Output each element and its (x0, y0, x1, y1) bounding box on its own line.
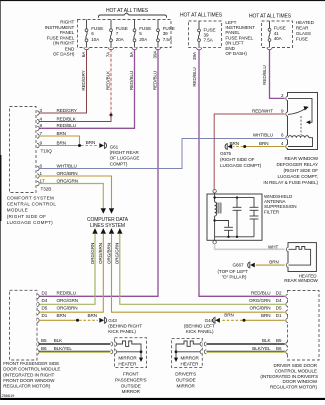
pin 17 (37, 181, 39, 185)
wire BRN dashed to ground G61 (81, 145, 98, 147)
svg-text:COMFORT SYSTEM: COMFORT SYSTEM (7, 196, 54, 201)
left door pin D4 (37, 302, 39, 306)
fuse 5 20A (132, 20, 151, 50)
svg-text:(RIGHT REAR: (RIGHT REAR (110, 150, 140, 155)
svg-text:G667: G667 (233, 263, 245, 268)
svg-text:CENTRAL CONTROL: CENTRAL CONTROL (7, 202, 57, 207)
svg-text:B5: B5 (41, 338, 47, 343)
pin 6 (37, 166, 39, 170)
svg-text:T32B: T32B (41, 186, 52, 191)
svg-text:BLK/YEL: BLK/YEL (54, 346, 73, 351)
svg-text:B6: B6 (41, 346, 47, 351)
ground G667 (217, 262, 254, 280)
svg-text:FRONT: FRONT (123, 371, 139, 376)
svg-text:DOOR CONTROL MODULE: DOOR CONTROL MODULE (3, 367, 60, 372)
svg-text:"D" PILLAR): "D" PILLAR) (222, 275, 247, 280)
wire ORG/GRN hub to left door D4 (39, 234, 96, 305)
ground G675 (220, 143, 262, 168)
svg-text:FUSE: FUSE (274, 25, 286, 30)
front passenger side door control module dashed box (10, 290, 38, 360)
svg-text:MIRROR: MIRROR (181, 356, 200, 361)
relay internal actuator dashed link (300, 116, 302, 135)
heated rear window pin WHT (286, 247, 288, 251)
junction dot BRN G43 (76, 319, 79, 322)
svg-text:BLK: BLK (262, 338, 271, 343)
svg-text:20A: 20A (116, 37, 125, 42)
capacitors C3 C4 in series (250, 207, 259, 237)
svg-text:RED/WHT: RED/WHT (252, 109, 273, 114)
driver's outside mirror dashed box (172, 338, 203, 367)
svg-text:RED/BLU: RED/BLU (251, 290, 271, 295)
node HOT AT ALL TIMES label 1 (99, 8, 167, 18)
text heated rear glass fuse (296, 20, 315, 42)
svg-text:REAR: REAR (296, 25, 309, 30)
text windshield antenna suppression filter (264, 194, 297, 215)
front passenger's outside mirror dashed box (115, 338, 147, 368)
svg-text:17: 17 (40, 178, 45, 183)
svg-text:OF LUGGAGE: OF LUGGAGE (110, 156, 140, 161)
svg-text:DEFOGGER RELAY: DEFOGGER RELAY (277, 162, 318, 167)
svg-text:BRN: BRN (86, 140, 96, 145)
left door pin D5 (37, 310, 39, 314)
svg-text:WHT/BLU: WHT/BLU (253, 132, 273, 137)
svg-text:HEATED: HEATED (296, 20, 315, 25)
left instrument panel fuse panel dashed box (189, 21, 222, 48)
windshield antenna suppression filter box (207, 194, 262, 240)
svg-text:(INTEGRATED IN RIGHT: (INTEGRATED IN RIGHT (3, 372, 54, 377)
svg-text:FILTER: FILTER (264, 209, 280, 214)
pin 7 (37, 134, 39, 138)
svg-text:ORG/GRN: ORG/GRN (90, 243, 95, 264)
svg-text:RED/GRY: RED/GRY (57, 108, 77, 113)
svg-text:39A: 39A (192, 51, 197, 60)
svg-text:(BEHIND RIGHT: (BEHIND RIGHT (108, 324, 142, 329)
svg-text:IN RELAY & FUSE PANEL): IN RELAY & FUSE PANEL) (263, 180, 318, 185)
wire RED/WHT relay pin9 to antenna filter (214, 114, 285, 189)
mirror connector terminals left (111, 342, 113, 346)
capacitor C1 (215, 221, 233, 237)
pin 4 (37, 119, 39, 123)
text left instrument panel fuse panel (225, 20, 255, 56)
svg-text:(INTEGRATED IN DRIVER'S: (INTEGRATED IN DRIVER'S (260, 374, 318, 379)
fuse 41 40A (267, 21, 286, 50)
svg-text:END: END (65, 46, 75, 51)
wire RED/BLU fuse5 to pin8 (39, 49, 135, 128)
svg-text:FRONT DOOR WINDOW: FRONT DOOR WINDOW (3, 378, 55, 383)
right door pin D2 (286, 294, 288, 298)
svg-text:HOT AT ALL TIMES: HOT AT ALL TIMES (249, 14, 292, 20)
left border thick segment (0, 155, 1, 221)
heated rear window box (288, 243, 316, 272)
filter bottom terminal (214, 237, 216, 241)
svg-text:REGULATOR MOTOR): REGULATOR MOTOR) (270, 385, 318, 390)
ground G61 (99, 142, 139, 166)
wire BRN relay pin4 to junction (245, 146, 285, 148)
svg-text:HEATER: HEATER (118, 362, 137, 367)
svg-text:COMPT): COMPT) (110, 161, 128, 166)
svg-text:G44: G44 (205, 318, 214, 323)
svg-text:BRN: BRN (259, 141, 269, 146)
svg-text:D5: D5 (42, 306, 48, 311)
pin 8 (37, 126, 39, 130)
wire BLK left door B5 to mirror heater (39, 343, 111, 345)
svg-text:RED/BLK: RED/BLK (106, 70, 111, 90)
wire BRN pin7 to junction (39, 136, 80, 146)
svg-text:D5: D5 (276, 306, 282, 311)
svg-text:B6: B6 (276, 346, 282, 351)
svg-text:D4: D4 (276, 298, 282, 303)
filter top terminal (213, 190, 216, 193)
left door pin D1 (37, 318, 39, 322)
wire RED/BLU 39A fuse39L to door module D2 (39, 49, 159, 296)
arrow down mirror heater left (139, 358, 143, 362)
svg-text:GLASS: GLASS (296, 31, 311, 36)
wire B6 inside right mirror (176, 351, 200, 353)
svg-text:T10Q: T10Q (41, 149, 53, 154)
svg-text:(IN RIGHT: (IN RIGHT (53, 41, 74, 46)
svg-text:G61: G61 (110, 144, 119, 149)
svg-text:(RIGHT SIDE OF: (RIGHT SIDE OF (283, 168, 318, 173)
heating element resistor (289, 247, 311, 266)
svg-text:39A: 39A (152, 50, 157, 59)
svg-text:LUGGAGE COMPT,: LUGGAGE COMPT, (277, 174, 318, 179)
wire WHT/BLU pin6 to relay pin6 (39, 139, 285, 169)
svg-text:OUTSIDE: OUTSIDE (176, 377, 196, 382)
arrow up hub 3 (109, 228, 114, 234)
wire ORG/BRN hub to left door D5 (39, 234, 104, 313)
svg-text:D1: D1 (276, 313, 282, 318)
relay internal fixed contact from pin2 (288, 98, 312, 122)
svg-text:(RIGHT SIDE OF: (RIGHT SIDE OF (220, 157, 255, 162)
text right instrument panel fuse panel (45, 20, 75, 57)
relay internal switch arm from pin9 (288, 109, 305, 115)
svg-text:BRN: BRN (224, 312, 234, 317)
svg-text:ORG/BRN: ORG/BRN (106, 243, 111, 264)
arrow up hub 4 (117, 228, 122, 234)
svg-text:BLK: BLK (54, 338, 63, 343)
arrow up hub 1 (92, 228, 97, 234)
junction dot mirror left (140, 350, 143, 353)
svg-text:D2: D2 (276, 290, 282, 295)
arrow down mirror heater right (174, 358, 178, 362)
svg-text:HOT AT ALL TIMES: HOT AT ALL TIMES (180, 13, 223, 19)
svg-text:ORG/BRN: ORG/BRN (98, 243, 103, 264)
junction dot BRN (78, 144, 81, 147)
svg-text:ORG/BRN: ORG/BRN (249, 306, 270, 311)
wire B6 inside left mirror (117, 351, 142, 353)
mirror connector terminals right (204, 342, 206, 346)
right instrument panel fuse panel dashed box (78, 20, 172, 48)
svg-text:ORG/GRN: ORG/GRN (115, 243, 120, 264)
svg-text:REAR WINDOW: REAR WINDOW (284, 278, 318, 283)
svg-text:RED/BLU: RED/BLU (129, 71, 134, 90)
text heated rear window (284, 274, 318, 283)
svg-text:KICK PANEL): KICK PANEL) (186, 329, 214, 334)
left black border line (0, 0, 2, 400)
comfort system central control module dashed box (10, 107, 37, 193)
svg-text:10A: 10A (91, 37, 100, 42)
capacitor C2 (233, 198, 242, 237)
relay pin 2 (286, 96, 288, 100)
svg-text:ORG/BRN: ORG/BRN (57, 171, 78, 176)
svg-text:RIGHT: RIGHT (60, 20, 74, 25)
mirror heater resistor left (117, 341, 142, 358)
svg-text:RED/BLU: RED/BLU (57, 290, 77, 295)
wire BRN left door D1 to junction (39, 319, 78, 321)
svg-text:39: 39 (163, 31, 168, 36)
svg-text:FUSE PANEL: FUSE PANEL (47, 35, 75, 40)
text comfort system central control module (7, 196, 57, 225)
svg-text:D4: D4 (42, 298, 48, 303)
svg-text:BRN: BRN (269, 260, 279, 265)
left door pin B6 (37, 350, 39, 354)
svg-text:FUSE: FUSE (296, 37, 308, 42)
svg-text:G675: G675 (220, 151, 232, 156)
right door pin D1 (286, 318, 288, 322)
wire BLK/YEL right door B6 to mirror heater (206, 350, 284, 352)
ground G43 (99, 317, 142, 334)
arrow down hub 1 (101, 208, 106, 214)
junction dot BRN G44 (243, 319, 246, 322)
svg-text:D2: D2 (42, 290, 48, 295)
wire WHT filter to heated rear window (215, 244, 285, 249)
left door pin D2 (37, 294, 39, 298)
wire BRN heated rear window to ground G667 (256, 264, 285, 266)
relay pin 4 (286, 144, 288, 148)
svg-text:END: END (225, 46, 235, 51)
inductor L1 with core (215, 202, 221, 216)
wire ORG/BRN pin1 to data hub (39, 176, 112, 208)
svg-text:LUGGAGE COMPT): LUGGAGE COMPT) (7, 220, 53, 225)
svg-text:MODULE: MODULE (7, 207, 28, 212)
relay pin 9 (286, 112, 288, 116)
svg-text:RED/GRY: RED/GRY (81, 70, 86, 90)
wire RED/BLU fuse41 to relay pin2 (270, 49, 285, 98)
svg-text:(BEHIND LEFT: (BEHIND LEFT (184, 324, 215, 329)
driver side door control module dashed box (288, 291, 320, 361)
wire ORG/BRN hub to right door D5 (112, 234, 285, 313)
svg-text:REGULATOR MOTOR): REGULATOR MOTOR) (3, 384, 51, 389)
svg-text:OF DASH): OF DASH) (225, 51, 247, 56)
arrow up hub 2 (101, 228, 106, 234)
wire BRN dashed to ground G43 (79, 319, 98, 321)
svg-text:RED/BLU: RED/BLU (152, 71, 157, 90)
wire RED/BLK to pin4 (39, 115, 112, 122)
relay pin 6 (286, 136, 288, 140)
node COMPUTER DATA LINES SYSTEM (87, 217, 129, 229)
wire RED/BLU 39A fuse39R to right door module D2 (199, 50, 285, 297)
wire RED/BLK fuse7 dashed (110, 49, 112, 114)
svg-text:KICK PANEL): KICK PANEL) (108, 329, 136, 334)
wire BRN dashed to ground G44 (221, 319, 243, 321)
svg-text:RED/BLU: RED/BLU (262, 65, 267, 84)
relay U1 rear window defogger relay box (288, 93, 318, 150)
svg-text:ORG/GRN: ORG/GRN (57, 178, 79, 183)
svg-text:BLK/YEL: BLK/YEL (252, 346, 271, 351)
junction dot RED/BLK (110, 114, 113, 117)
heated rear glass fuse dashed box (262, 21, 293, 48)
text driver's outside mirror (175, 371, 196, 388)
wire RED/GRY fuse6 to pin3 (39, 49, 87, 113)
right door pin D5 (286, 310, 288, 314)
text rear window defogger relay (263, 156, 318, 185)
junction dot mirror right (175, 350, 178, 353)
pin 9 (37, 143, 39, 147)
svg-text:MIRROR: MIRROR (118, 356, 137, 361)
svg-text:FRONT PASSENGER SIDE: FRONT PASSENGER SIDE (3, 361, 59, 366)
fuse 7 20A (108, 20, 127, 50)
wire ORG/GRN hub to right door D4 (120, 234, 285, 305)
svg-text:CONTROL MODULE: CONTROL MODULE (275, 368, 317, 373)
text front passenger's outside mirror (115, 371, 147, 394)
svg-text:REAR WINDOW: REAR WINDOW (284, 156, 318, 161)
filter internal top rail (215, 198, 254, 208)
svg-text:(RIGHT SIDE OF: (RIGHT SIDE OF (7, 214, 47, 219)
fuse 39 7.5A (right panel) (196, 21, 215, 50)
relay coil between pin6 and pin4 (288, 136, 309, 138)
wire BLK/YEL left door B6 to mirror heater (39, 350, 111, 352)
right door pin D4 (286, 302, 288, 306)
pin 1 (37, 174, 39, 178)
svg-text:PASSENGER'S: PASSENGER'S (115, 377, 147, 382)
top black border line (0, 0, 325, 1)
filter internal bottom rail (215, 236, 254, 238)
arrow down hub 2 (109, 208, 114, 214)
wire BRN pin9 to junction (39, 145, 80, 147)
svg-text:BRN: BRN (261, 313, 271, 318)
svg-text:BRN: BRN (57, 140, 67, 145)
svg-text:ORG/GRN: ORG/GRN (249, 298, 271, 303)
right door pin B5 (286, 342, 288, 346)
svg-text:40A: 40A (274, 36, 283, 41)
svg-text:7.5A: 7.5A (204, 37, 214, 42)
filter internal left drop (214, 216, 216, 237)
svg-text:RED/BLU: RED/BLU (57, 123, 77, 128)
pin 3 (37, 111, 39, 115)
svg-text:MIRROR: MIRROR (177, 383, 196, 388)
svg-text:WHT/BLU: WHT/BLU (57, 163, 77, 168)
svg-text:20A: 20A (139, 37, 148, 42)
svg-text:LUGGAGE COMPT): LUGGAGE COMPT) (220, 163, 262, 168)
wire BRN dashed to ground G675 (233, 146, 243, 148)
right door pin B6 (286, 350, 288, 354)
svg-text:B5: B5 (276, 338, 282, 343)
bottom black border bar (0, 398, 325, 400)
svg-text:RED/BLU: RED/BLU (192, 67, 197, 86)
svg-text:256619: 256619 (2, 393, 16, 398)
svg-text:MIRROR: MIRROR (122, 389, 141, 394)
svg-text:OF DASH): OF DASH) (53, 52, 75, 57)
svg-text:(TOP OF LEFT: (TOP OF LEFT (217, 269, 248, 274)
svg-text:G43: G43 (108, 318, 117, 323)
svg-text:ORG/GRN: ORG/GRN (57, 298, 79, 303)
svg-text:(IN LEFT: (IN LEFT (225, 41, 243, 46)
svg-text:HEATER: HEATER (181, 362, 200, 367)
svg-text:DRIVER'S: DRIVER'S (175, 371, 196, 376)
text driver side door control module (260, 363, 318, 390)
svg-text:BRN: BRN (57, 131, 67, 136)
fuse 6 10A (84, 20, 103, 50)
svg-text:41: 41 (274, 31, 279, 36)
svg-text:BRN: BRN (57, 313, 67, 318)
heated rear window pin BRN (286, 263, 288, 267)
junction dot BRN relay ground (243, 145, 246, 148)
svg-text:ORG/BRN: ORG/BRN (57, 306, 78, 311)
svg-text:BRN: BRN (88, 313, 98, 318)
wire BLK right door B5 to mirror heater (206, 343, 284, 345)
text front passenger side door control module (3, 361, 60, 389)
svg-text:7.5A: 7.5A (163, 37, 173, 42)
mirror heater resistor right (176, 341, 200, 358)
wire ORG/GRN pin17 to data hub (39, 184, 104, 209)
svg-text:WHT: WHT (268, 244, 279, 249)
svg-text:D1: D1 (42, 313, 48, 318)
svg-text:RED/BLK: RED/BLK (57, 116, 77, 121)
svg-text:OUTSIDE: OUTSIDE (121, 383, 141, 388)
svg-text:DOOR WINDOW: DOOR WINDOW (282, 379, 317, 384)
svg-text:LINES SYSTEM: LINES SYSTEM (90, 223, 125, 229)
fuse 39 7.5A (left panel) (155, 20, 174, 50)
ground G44 (184, 317, 220, 334)
left door pin B5 (37, 342, 39, 346)
svg-text:DRIVER SIDE DOOR: DRIVER SIDE DOOR (274, 363, 318, 368)
wire BRN right door D1 to junction (244, 319, 285, 321)
